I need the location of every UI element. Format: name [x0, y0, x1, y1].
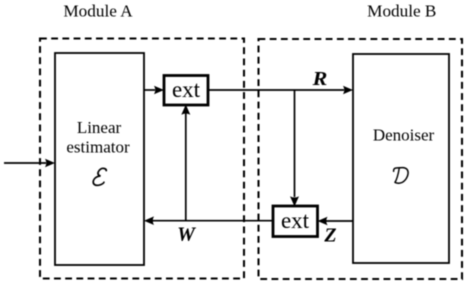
script letter D (calligraphic): [394, 168, 409, 184]
wire: branch down from R line to lower ext: [290, 90, 299, 207]
svg-text:ext: ext: [172, 77, 201, 102]
svg-text:estimator: estimator: [66, 138, 130, 157]
wire: input arrow into linear estimator: [4, 159, 55, 168]
svg-text:Module A: Module A: [63, 2, 133, 21]
svg-text:Linear: Linear: [77, 118, 122, 137]
wire: branch up from W line to upper ext: [181, 105, 190, 221]
module B dashed boundary: [259, 39, 463, 279]
svg-text:Denoiser: Denoiser: [373, 126, 435, 145]
block: ext (upper): [164, 76, 208, 106]
wire: lower ext to linear estimator (W): [144, 216, 273, 225]
script letter E (calligraphic): [93, 168, 107, 185]
block: linear estimator E: [55, 53, 144, 265]
wire: denoiser to lower ext (Z): [318, 217, 354, 226]
svg-text:Z: Z: [323, 225, 336, 247]
block: denoiser D: [353, 54, 449, 263]
svg-text:W: W: [177, 224, 196, 246]
svg-text:R: R: [312, 67, 328, 90]
svg-text:Module B: Module B: [367, 2, 436, 21]
wire: upper ext to denoiser (R): [208, 86, 353, 95]
block: ext (lower): [273, 206, 318, 237]
wire: linear estimator to upper ext: [144, 86, 164, 95]
module A dashed boundary: [40, 39, 244, 279]
svg-text:ext: ext: [281, 208, 310, 233]
